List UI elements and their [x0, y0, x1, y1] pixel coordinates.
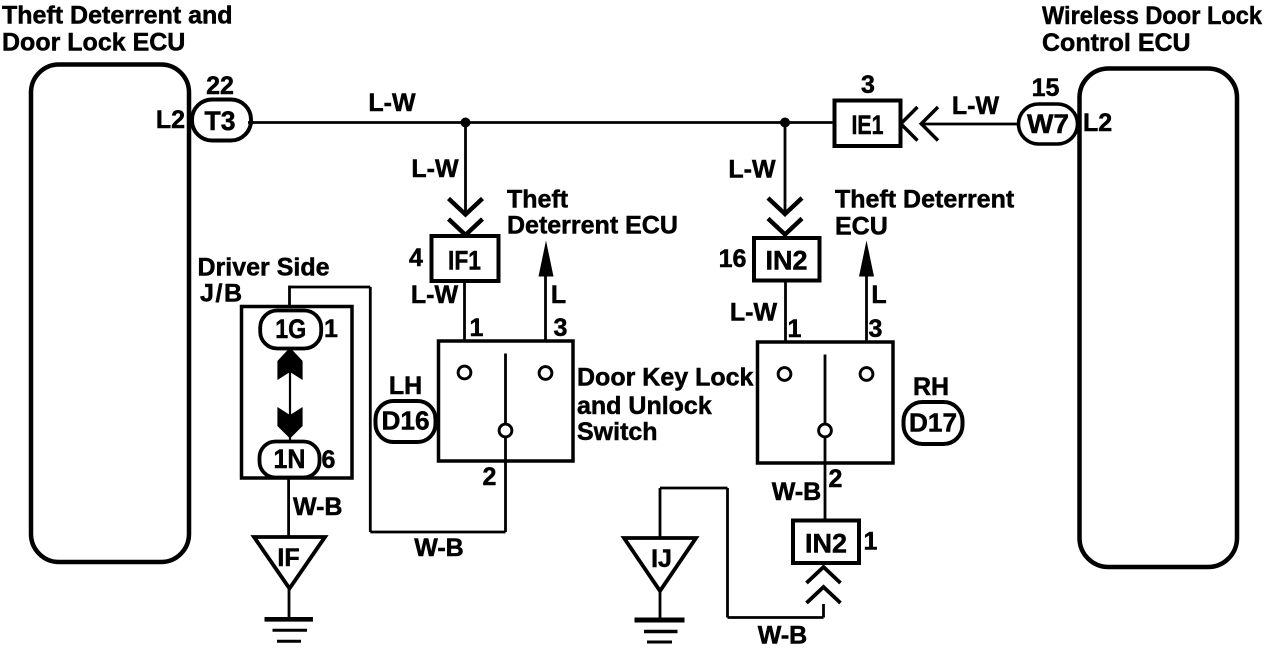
- switch: Door Key Lock and Unlock Switch RH: [758, 342, 894, 463]
- svg-text:Door Key Lock: Door Key Lock: [577, 364, 754, 392]
- terminal 3 circle (LH): [539, 367, 552, 380]
- connector T3: [192, 100, 251, 141]
- wire: main L-W horizontal from T3 to IE1: [248, 121, 835, 124]
- svg-text:2: 2: [483, 463, 497, 491]
- terminal 1 circle (LH): [458, 366, 471, 379]
- svg-text:L-W: L-W: [411, 155, 459, 183]
- svg-text:1: 1: [788, 315, 802, 343]
- J/B internal link line: [289, 349, 291, 440]
- svg-text:W-B: W-B: [758, 622, 807, 650]
- wire: 1N down to IF ground triangle: [287, 477, 290, 537]
- svg-text:ECU: ECU: [835, 213, 888, 241]
- svg-text:3: 3: [554, 314, 568, 342]
- svg-text:J/B: J/B: [200, 280, 242, 308]
- svg-text:W-B: W-B: [414, 534, 463, 562]
- svg-text:Theft: Theft: [507, 186, 569, 214]
- svg-text:Driver Side: Driver Side: [198, 254, 330, 282]
- wire: vertical riser x=727: [726, 488, 729, 618]
- switch wiper (LH): [504, 354, 507, 425]
- svg-text:15: 15: [1032, 74, 1060, 102]
- connector pass-through chevrons below IN2 lower: [807, 567, 841, 583]
- svg-text:6: 6: [322, 446, 336, 474]
- connector D17: [904, 402, 963, 444]
- svg-text:Theft Deterrent and: Theft Deterrent and: [2, 2, 233, 30]
- svg-text:L-W: L-W: [730, 299, 778, 327]
- svg-text:and Unlock: and Unlock: [577, 392, 712, 420]
- ECU block: Theft Deterrent and Door Lock ECU: [31, 65, 189, 563]
- svg-text:Door Lock ECU: Door Lock ECU: [2, 29, 185, 57]
- connector IN2 (lower): [793, 521, 859, 564]
- connector pass-through chevrons above IF1: [449, 199, 483, 215]
- svg-text:Control ECU: Control ECU: [1042, 29, 1191, 57]
- svg-text:1N: 1N: [274, 444, 306, 474]
- svg-text:Wireless Door Lock: Wireless Door Lock: [1042, 2, 1262, 30]
- switch wiper (RH): [824, 355, 827, 425]
- wire: bottom horizontal to IJ route: [728, 616, 824, 619]
- connector 1N: [260, 442, 320, 478]
- wire: stub down into 1G: [288, 286, 291, 311]
- connector IE1: [835, 101, 901, 147]
- switch: Door Key Lock and Unlock Switch LH: [439, 341, 574, 461]
- svg-text:LH: LH: [389, 372, 422, 400]
- svg-text:L-W: L-W: [411, 281, 459, 309]
- junction block: Driver Side J/B: [242, 307, 353, 479]
- svg-text:Deterrent ECU: Deterrent ECU: [507, 212, 678, 240]
- svg-text:22: 22: [206, 72, 234, 100]
- svg-text:IN2: IN2: [766, 246, 808, 276]
- connector W7: [1019, 104, 1078, 144]
- svg-text:3: 3: [861, 71, 875, 99]
- svg-text:1G: 1G: [275, 314, 306, 344]
- connector IN2 (upper): [754, 238, 820, 281]
- connector IF1: [432, 236, 499, 281]
- wire: vertical riser x=370: [369, 287, 372, 532]
- wire: IF1 to switch pin 1: [463, 281, 466, 365]
- svg-text:IF1: IF1: [448, 246, 481, 276]
- svg-text:IN2: IN2: [805, 529, 847, 559]
- wire: vertical drop to IN2: [784, 123, 787, 212]
- terminal 3 circle (RH): [860, 368, 873, 381]
- wire: horizontal y=287 to above 1G: [290, 286, 371, 289]
- svg-text:T3: T3: [205, 106, 236, 136]
- svg-text:L2: L2: [1083, 109, 1112, 137]
- wire: horizontal y=488: [660, 487, 728, 490]
- junction dot (right): [780, 118, 790, 128]
- J/B thick down arrow: [277, 407, 302, 439]
- ground triangle IF: [254, 537, 325, 589]
- svg-text:1: 1: [864, 528, 878, 556]
- svg-text:L-W: L-W: [368, 89, 416, 117]
- connector pass-through chevrons right of IE1: [901, 107, 918, 141]
- svg-text:W-B: W-B: [293, 493, 342, 521]
- svg-text:Switch: Switch: [577, 418, 658, 446]
- svg-text:IE1: IE1: [852, 110, 884, 140]
- ground triangle IJ: [624, 538, 696, 591]
- arrowhead to Theft Deterrent ECU (left): [539, 241, 554, 277]
- connector pass-through chevrons above IN2: [768, 198, 802, 214]
- svg-text:4: 4: [409, 244, 423, 272]
- svg-text:D17: D17: [909, 408, 957, 438]
- wire: chevron stub down: [822, 604, 825, 618]
- junction dot (left): [461, 118, 471, 128]
- svg-text:RH: RH: [913, 373, 949, 401]
- svg-text:IF: IF: [277, 544, 299, 572]
- svg-text:Theft Deterrent: Theft Deterrent: [835, 186, 1015, 214]
- svg-text:W7: W7: [1027, 109, 1069, 139]
- svg-text:W-B: W-B: [772, 478, 821, 506]
- ECU block: Wireless Door Lock Control ECU: [1080, 69, 1238, 568]
- wire: W7 to IE1 chevrons: [921, 123, 1019, 126]
- ground symbol (right): [635, 618, 685, 623]
- ground symbol (left): [265, 617, 314, 622]
- connector 1G: [260, 311, 321, 349]
- svg-text:3: 3: [869, 315, 883, 343]
- J/B thick up arrow: [277, 348, 302, 381]
- svg-text:L: L: [871, 281, 886, 309]
- wire: drop to IJ triangle: [659, 488, 662, 538]
- svg-text:1: 1: [470, 314, 484, 342]
- wire: IJ triangle stem: [659, 591, 662, 618]
- wire: IF triangle stem: [288, 589, 291, 620]
- svg-text:IJ: IJ: [651, 545, 672, 573]
- wire: LH pin 2 route to J/B (horizontal bottom): [370, 531, 505, 534]
- svg-text:2: 2: [829, 465, 843, 493]
- svg-text:L: L: [551, 281, 566, 309]
- wire: L wire arrow shaft from right switch pin 3: [865, 262, 868, 366]
- arrowhead to Theft Deterrent ECU (right): [859, 241, 874, 277]
- svg-text:D16: D16: [382, 406, 430, 436]
- wire: vertical drop to IF1: [464, 123, 467, 213]
- svg-text:1: 1: [324, 315, 338, 343]
- svg-text:16: 16: [719, 245, 747, 273]
- svg-text:L-W: L-W: [728, 156, 776, 184]
- connector D16: [376, 401, 436, 442]
- svg-text:L2: L2: [156, 106, 185, 134]
- wire: L wire arrow shaft from left switch pin 3: [544, 262, 547, 366]
- wire: LH pin 2 down: [504, 438, 507, 532]
- wire: RH pin 2 down to IN2 lower: [824, 438, 827, 521]
- svg-text:L-W: L-W: [952, 92, 1000, 120]
- wire: IN2 to switch pin 1 (RH): [784, 280, 787, 366]
- terminal 1 circle (RH): [778, 368, 791, 381]
